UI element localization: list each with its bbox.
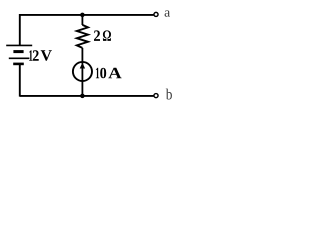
label a: [165, 10, 170, 16]
battery V1 12V: [6, 45, 32, 65]
current source I1 10A circle: [73, 62, 92, 81]
battery long plate 2: [9, 57, 30, 59]
current source arrowhead (points up): [80, 63, 85, 69]
label b: [166, 89, 172, 100]
wire top: battery top to terminal a: [20, 14, 154, 16]
battery long plate 1: [6, 44, 32, 46]
wire left vertical: top corner down to battery: [19, 14, 21, 45]
wire: resistor bottom through current source to bottom junction: [81, 48, 83, 96]
label 12V: [29, 50, 32, 61]
wire: battery bottom to bottom-left corner: [19, 65, 21, 97]
wire bottom: bottom-left corner to terminal b: [20, 95, 154, 97]
junction dot top node: [80, 13, 85, 18]
battery short thick plate 1: [13, 50, 23, 53]
battery short thick plate 2: [13, 63, 24, 66]
terminal b open circle: [154, 94, 158, 98]
terminal a open circle: [154, 12, 158, 16]
label 2 ohm: [94, 30, 100, 40]
label 10A: [96, 68, 99, 79]
junction dot bottom node: [80, 94, 85, 99]
resistor 2ohm zigzag: [77, 25, 88, 48]
wire: top junction down to resistor: [81, 15, 83, 25]
